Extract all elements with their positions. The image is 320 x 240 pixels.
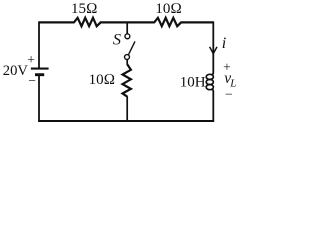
wire: top-left segment with 15-ohm zigzag and top-right segment with 10-ohm zigzag: [39, 18, 213, 26]
inductor L1 coil loop 1: [206, 74, 213, 79]
svg-text:10H: 10H: [180, 75, 206, 91]
resistor R3 vertical zigzag (middle branch): [123, 64, 131, 96]
svg-text:i: i: [222, 35, 226, 52]
svg-text:S: S: [113, 30, 121, 49]
wire: from resistor R3 to bottom rail: [126, 96, 128, 121]
svg-text:+: +: [27, 52, 35, 67]
switch S top contact circle: [125, 34, 130, 39]
wire: switch stub from top wire: [126, 22, 128, 34]
svg-text:−: −: [225, 87, 233, 102]
switch S bottom contact circle: [125, 55, 130, 60]
wire: left rail lower (source - to bottom wire): [38, 76, 40, 122]
battery V1 negative plate (short): [35, 73, 44, 76]
wire: right rail lower (inductor to bottom rail): [211, 89, 213, 121]
inductor L1 coil loop 3: [206, 85, 213, 90]
svg-text:15Ω: 15Ω: [71, 1, 98, 17]
wire: left rail upper (source + to top wire): [38, 21, 40, 67]
current arrow i (arrowhead pointing down on right rail): [210, 47, 217, 54]
wire: right rail upper (top wire down to inductor): [211, 21, 213, 74]
svg-text:10Ω: 10Ω: [89, 72, 116, 88]
svg-text:20V: 20V: [3, 63, 29, 79]
battery V1 positive plate (long): [31, 68, 49, 70]
wire: from switch bottom contact to resistor R3: [126, 59, 128, 64]
svg-text:−: −: [28, 73, 36, 88]
wire: bottom rail: [38, 120, 214, 122]
switch S blade (open, tilted right): [129, 41, 135, 54]
svg-text:10Ω: 10Ω: [155, 1, 182, 17]
inductor L1 coil loop 2: [206, 79, 213, 84]
